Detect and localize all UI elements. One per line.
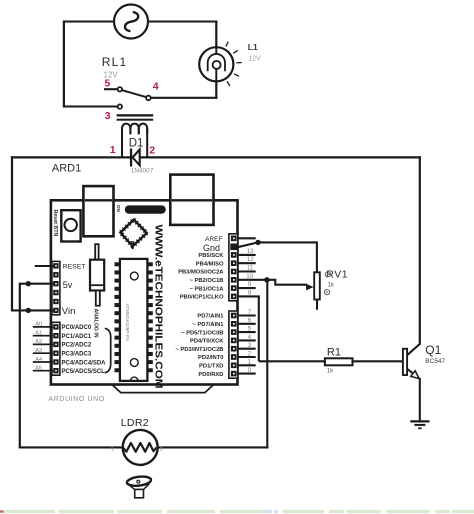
svg-text:PB3/MOSI/OC2A: PB3/MOSI/OC2A <box>178 270 224 276</box>
svg-text:1k: 1k <box>327 369 334 375</box>
svg-text:1: 1 <box>111 447 114 453</box>
svg-text:3: 3 <box>105 110 111 122</box>
svg-text:2: 2 <box>149 145 155 157</box>
svg-text:RL1: RL1 <box>102 55 128 69</box>
svg-text:6: 6 <box>248 317 252 324</box>
svg-text:A1: A1 <box>35 331 42 337</box>
svg-text:12: 12 <box>247 256 255 263</box>
svg-text:BC547: BC547 <box>425 358 445 365</box>
svg-text:PD4/T0/XCK: PD4/T0/XCK <box>190 339 224 345</box>
svg-text:~ PD7/AIN1: ~ PD7/AIN1 <box>192 322 224 328</box>
svg-text:2: 2 <box>160 447 163 453</box>
svg-text:11: 11 <box>247 265 254 272</box>
svg-text:D1: D1 <box>129 137 144 149</box>
svg-text:ON: ON <box>115 205 121 213</box>
svg-text:~ PD3/INT1/OC2B: ~ PD3/INT1/OC2B <box>175 347 223 353</box>
svg-text:PD7/AIN1: PD7/AIN1 <box>197 314 224 320</box>
svg-text:LDR2: LDR2 <box>121 417 149 429</box>
svg-text:A0: A0 <box>35 322 42 328</box>
svg-text:PD1/TXD: PD1/TXD <box>199 364 223 370</box>
svg-text:AREF: AREF <box>205 236 222 243</box>
svg-text:1: 1 <box>110 144 116 156</box>
svg-text:PB4/MISO: PB4/MISO <box>196 261 224 267</box>
svg-text:RV1: RV1 <box>326 269 348 281</box>
svg-text:RESET: RESET <box>63 263 86 270</box>
svg-text:PB0/ICP1/CLKO: PB0/ICP1/CLKO <box>180 295 224 301</box>
svg-text:Gnd: Gnd <box>203 243 220 253</box>
svg-text:A4: A4 <box>35 357 43 363</box>
svg-text:1k: 1k <box>328 282 335 288</box>
svg-text:ARDUINO UNO: ARDUINO UNO <box>49 396 105 403</box>
svg-text:PC0/ADC0: PC0/ADC0 <box>62 325 92 331</box>
svg-text:~ PB1/OC1A: ~ PB1/OC1A <box>190 286 225 292</box>
svg-text:PC3/ADC3: PC3/ADC3 <box>62 352 92 358</box>
svg-text:A3: A3 <box>35 348 42 354</box>
svg-text:PC2/ADC2: PC2/ADC2 <box>62 343 92 349</box>
svg-text:A5: A5 <box>35 366 42 372</box>
svg-text:~ PD5/T1/OC0B: ~ PD5/T1/OC0B <box>181 330 223 336</box>
svg-text:PB5/SCK: PB5/SCK <box>198 253 224 259</box>
svg-text:PD2/INT0: PD2/INT0 <box>198 355 223 361</box>
svg-text:PC4/ADC4/SDA: PC4/ADC4/SDA <box>62 360 107 366</box>
svg-text:PC5/ADC5/SCL: PC5/ADC5/SCL <box>62 369 106 375</box>
svg-text:5v: 5v <box>63 280 73 290</box>
svg-text:ANALOG IN: ANALOG IN <box>93 309 99 338</box>
svg-text:ARD1: ARD1 <box>52 163 81 175</box>
svg-text:ATMEGA328P-PU: ATMEGA328P-PU <box>125 304 130 342</box>
svg-text:L1: L1 <box>248 42 258 52</box>
svg-text:A2: A2 <box>35 339 42 345</box>
svg-text:7: 7 <box>248 309 252 316</box>
svg-text:4: 4 <box>153 81 159 93</box>
svg-text:5: 5 <box>248 326 252 333</box>
svg-text:PD0/RXD: PD0/RXD <box>198 372 223 378</box>
svg-text:13: 13 <box>247 248 255 255</box>
svg-text:1: 1 <box>248 359 252 366</box>
svg-text:WWW.eTECHNOPHILES.COM: WWW.eTECHNOPHILES.COM <box>152 225 163 389</box>
svg-text:0: 0 <box>248 367 252 374</box>
svg-text:12V: 12V <box>248 55 261 62</box>
svg-text:PC1/ADC1: PC1/ADC1 <box>62 334 92 340</box>
svg-text:9: 9 <box>248 281 252 288</box>
svg-text:5: 5 <box>105 78 111 90</box>
svg-text:Vin: Vin <box>62 306 76 317</box>
svg-text:1N4007: 1N4007 <box>131 167 154 174</box>
svg-text:R1: R1 <box>327 347 341 359</box>
svg-text:2: 2 <box>248 350 252 357</box>
svg-text:Q1: Q1 <box>425 343 441 357</box>
svg-text:~ PB2/OC1B: ~ PB2/OC1B <box>190 278 224 284</box>
svg-text:4: 4 <box>248 334 252 341</box>
svg-text:3: 3 <box>248 342 252 349</box>
svg-text:Reset BTN: Reset BTN <box>52 210 58 237</box>
